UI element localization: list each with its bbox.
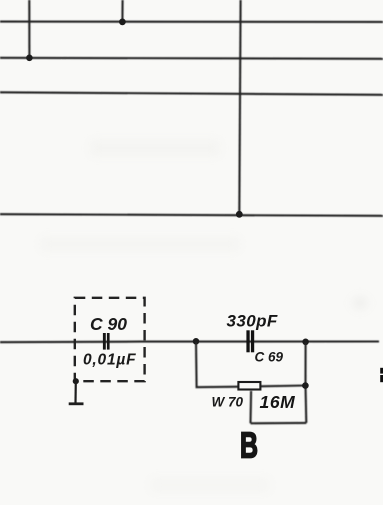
node junction left of C69 [193,338,200,345]
ground (chassis) [69,381,84,404]
node junction lower right [302,382,309,389]
wire H4 fourth horizontal [0,214,383,216]
wire H3 third horizontal [0,92,383,95]
wire V2 vertical stub [121,0,123,22]
capacitor C69 plates [246,330,254,352]
svg-text:0,01µF: 0,01µF [83,352,136,369]
capacitor C90 plates [103,333,110,350]
wire H1 top horizontal [0,21,383,23]
wire H2 second horizontal [0,58,383,59]
svg-text:16M: 16M [260,392,296,412]
svg-text:330pF: 330pF [227,312,278,331]
node at dashed box bottom-left [73,378,79,384]
resistor W70 body [238,382,260,390]
node junction on H4 [236,211,243,218]
wire resistor branch [196,341,306,423]
svg-text:W 70: W 70 [212,395,244,410]
dashed enclosure around C90 [75,298,145,381]
node junction right of C69 [302,339,309,346]
node junction on H2 [26,55,33,62]
svg-text:C 90: C 90 [90,314,127,334]
wire V3 long vertical [239,0,240,214]
svg-text:C 69: C 69 [255,350,284,365]
wire V1 vertical [28,0,30,58]
node junction on H1 [119,19,126,26]
cropped character at right edge [380,368,383,382]
wire main lower horizontal [0,340,379,343]
svg-text:B: B [240,425,258,466]
